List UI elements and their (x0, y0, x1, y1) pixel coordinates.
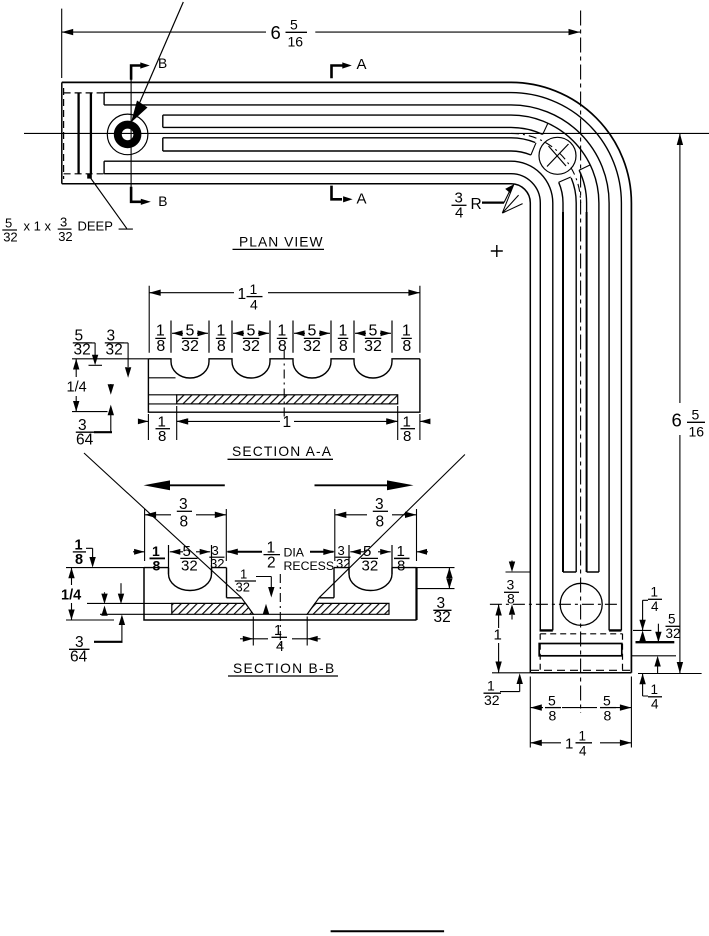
bottom end slot walls (solid) (539, 644, 622, 656)
bottom edge extension to the left (492, 672, 530, 674)
svg-text:32: 32 (58, 229, 72, 244)
section cut line B-B through hole (130, 65, 132, 202)
svg-text:1/4: 1/4 (61, 588, 81, 604)
left end hidden slot: dashed bottom (64, 173, 105, 175)
svg-text:32: 32 (303, 338, 321, 355)
svg-text:R: R (471, 196, 482, 213)
vertical leg centerline (dash-dot) (580, 11, 582, 714)
svg-text:5: 5 (5, 215, 12, 230)
groove 3 stub cap near corner hole (left) (531, 143, 536, 155)
svg-text:A: A (357, 191, 367, 208)
svg-text:1: 1 (579, 729, 587, 744)
svg-text:5: 5 (369, 323, 378, 340)
svg-text:32: 32 (364, 338, 382, 355)
hatched strip (177, 395, 398, 404)
svg-text:6: 6 (672, 410, 682, 431)
slot note leader line (90, 177, 133, 230)
svg-text:8: 8 (180, 514, 189, 531)
svg-text:8: 8 (549, 708, 557, 724)
vertical leg bottom: inner groove cap extension line (506, 571, 531, 573)
svg-text:x 1 x: x 1 x (24, 219, 52, 234)
svg-text:8: 8 (153, 558, 161, 574)
svg-text:5: 5 (290, 17, 298, 33)
part outline: left end edge (61, 82, 63, 183)
countersink slants (242, 598, 320, 615)
slot floor between slants (253, 613, 307, 615)
leader arrow from top into hole (140, 2, 184, 103)
svg-text:1: 1 (277, 323, 286, 340)
top dimension 6 5/16: left extension line (61, 9, 63, 78)
svg-text:B: B (158, 56, 167, 71)
right dimension 6 5/16: dimension line with arrows (679, 133, 681, 403)
countersunk hole at left end: black ring (118, 125, 138, 145)
svg-text:5: 5 (308, 323, 317, 340)
left extension of bottom edge (72, 411, 148, 414)
svg-text:8: 8 (403, 428, 411, 445)
svg-text:1: 1 (338, 323, 347, 340)
groove 2 stub cap near corner hole (left) (543, 123, 548, 134)
1 1/4 dimension line (530, 742, 631, 744)
svg-text:1: 1 (156, 323, 165, 340)
svg-text:8: 8 (604, 708, 612, 724)
second dim row ticks (169, 545, 393, 574)
svg-text:32: 32 (242, 338, 260, 355)
left end slot side walls (solid, thick) (79, 93, 91, 174)
svg-text:1: 1 (250, 281, 258, 297)
section A-A centerline (283, 351, 285, 419)
inner groove end caps at bottom of vertical leg (563, 571, 599, 573)
top chain dim row: tick lines (171, 321, 392, 353)
groove 2 top line (wraps corner, grazes hole) (163, 115, 599, 572)
groove 4 left end cap (103, 161, 105, 174)
svg-text:32: 32 (3, 230, 17, 245)
section A-A body top edge with 4 scallop grooves (148, 359, 420, 378)
svg-text:8: 8 (397, 558, 405, 575)
bottom 1/4: extension lines (253, 617, 307, 646)
svg-text:32: 32 (236, 580, 250, 595)
svg-text:1: 1 (238, 286, 247, 303)
5/32 right: level line (bold) and bracket (636, 641, 675, 643)
1/8 bottom left with outside arrows (138, 420, 148, 422)
svg-text:5: 5 (692, 407, 700, 423)
chain dim labels 5/32 (x4) with arrows (181, 323, 382, 356)
1/8 bottom right with outside arrows (388, 420, 398, 422)
chain dim labels 1/8 (x5) (156, 323, 411, 356)
svg-text:32: 32 (181, 338, 199, 355)
open arrow toward fillet (502, 184, 522, 213)
flag B top (131, 66, 142, 80)
svg-text:3: 3 (179, 496, 188, 513)
svg-text:8: 8 (156, 338, 165, 355)
svg-text:64: 64 (70, 649, 88, 666)
hole centerline horizontal at bottom of leg (dash-dot) (490, 603, 619, 605)
svg-text:8: 8 (278, 338, 287, 355)
strip level lines at left inside body (148, 395, 176, 404)
extension at outer groove cap level (633, 629, 651, 631)
bend mid centerline arc (dash-dot) (511, 133, 581, 203)
svg-text:5: 5 (668, 612, 676, 627)
svg-text:1: 1 (402, 323, 411, 340)
1 1/4 dimension line (149, 292, 420, 294)
row dim line piece (1/2 recess) (228, 551, 263, 553)
B-B right groove (349, 568, 392, 591)
svg-text:16: 16 (689, 424, 705, 440)
svg-text:1: 1 (651, 585, 659, 600)
viewing direction arrow right (315, 484, 392, 486)
recess walls (227, 568, 335, 598)
groove 1 left end cap (103, 93, 105, 105)
svg-text:8: 8 (217, 338, 226, 355)
bottom edge extension line to the right (638, 673, 702, 675)
svg-text:B: B (158, 194, 167, 209)
3/32 right: extension lines (417, 568, 455, 589)
row arrows at far left (133, 551, 145, 553)
groove bottom reference line (left) (148, 377, 175, 379)
recess floor segments (227, 597, 335, 599)
bottom end hidden slot: dashed bottom (full width) (531, 669, 631, 671)
1/4 top right: bracket (643, 600, 648, 630)
flag B bottom (131, 187, 141, 202)
groove 2 left end cap (162, 115, 164, 127)
small arrows to strip top line (104, 592, 106, 593)
small arrow to strip top (110, 384, 112, 387)
3/8 left: extension lines (145, 509, 227, 561)
svg-text:32: 32 (666, 626, 681, 641)
3/8 dimension (left of leg) (511, 561, 513, 566)
svg-text:1: 1 (274, 623, 282, 639)
bottom hole circle (560, 583, 602, 625)
svg-text:1: 1 (494, 627, 502, 644)
bottom 1/4 dim (240, 638, 253, 640)
3/32 right dim line (448, 568, 450, 589)
top dimension 6 5/16: dimension line (62, 31, 266, 33)
outer groove end caps at bottom of vertical leg (bold) (540, 629, 622, 631)
hatched strip right (307, 603, 389, 614)
svg-text:1: 1 (651, 682, 659, 697)
svg-text:4: 4 (250, 297, 258, 313)
svg-text:2: 2 (267, 555, 276, 572)
part outline: bottom edge + inner fillet + left edge of vertical leg (62, 184, 531, 673)
B-B centerline (279, 574, 281, 650)
part outline: top edge + outer corner arc + right edge of vertical leg (62, 82, 632, 672)
part outline: bottom end edge of vertical leg (530, 672, 631, 674)
groove 3 top line, interrupted by corner hole (163, 138, 576, 572)
corner hole cross (X) (547, 144, 569, 167)
1 bottom dimension (177, 420, 398, 422)
groove 4 top line (wraps corner) (104, 161, 553, 630)
groove 2 bottom line, interrupted by corner hole (163, 127, 587, 572)
1/32 dimension (bottom left of leg) (519, 678, 521, 692)
svg-text:PLAN VIEW: PLAN VIEW (239, 234, 324, 249)
viewing direction arrow left (166, 484, 225, 486)
svg-text:8: 8 (402, 338, 411, 355)
svg-text:4: 4 (455, 205, 463, 222)
horizontal centerline of plan view (24, 132, 709, 134)
svg-text:4: 4 (651, 599, 659, 614)
slot note leader dot (87, 174, 92, 179)
svg-text:1: 1 (565, 736, 573, 753)
left end hidden slot: dashed vertical (63, 88, 65, 179)
1/4 bottom right (657, 659, 659, 674)
groove 3 stub cap near corner hole (right) (559, 177, 571, 182)
bottom dims extension lines (148, 406, 420, 440)
1 dimension (left of leg) (498, 604, 500, 673)
svg-text:6: 6 (271, 22, 281, 43)
groove 4 bottom line (wraps corner) (104, 174, 540, 631)
thicker inner groove lines in vertical leg (563, 212, 587, 572)
svg-text:SECTION A-A: SECTION A-A (232, 444, 332, 459)
svg-text:SECTION B-B: SECTION B-B (233, 661, 335, 676)
section B-B body top edge segments (144, 567, 417, 569)
1/4 dimension (A-A left) (75, 359, 77, 412)
svg-text:4: 4 (276, 639, 284, 655)
svg-text:1: 1 (283, 414, 292, 431)
body sides and bottom (144, 568, 417, 620)
svg-text:1: 1 (216, 323, 225, 340)
5/8 / 5/8 dimension line (530, 707, 631, 709)
groove 2 stub cap near corner hole (right) (579, 165, 590, 170)
svg-text:A: A (357, 56, 367, 73)
svg-text:8: 8 (339, 338, 348, 355)
slot line extension to right (632, 655, 677, 657)
svg-text:32: 32 (484, 692, 500, 708)
3/8 right dimension line (335, 514, 417, 516)
section A-A body sides and bottom (148, 359, 420, 412)
3/64 left dimension (121, 625, 123, 642)
svg-text:32: 32 (362, 558, 379, 575)
svg-text:32: 32 (106, 342, 123, 359)
svg-text:8: 8 (507, 591, 515, 607)
3/8 right: extension lines (335, 509, 417, 561)
svg-text:3: 3 (60, 215, 67, 230)
groove 1 bottom line (wraps corner) (104, 105, 609, 631)
svg-text:32: 32 (336, 556, 350, 571)
svg-text:RECESS: RECESS (284, 559, 335, 573)
projection diagonal right (319, 455, 465, 598)
svg-text:DIA: DIA (284, 546, 305, 560)
groove 1 top line (wraps corner) (104, 93, 621, 631)
svg-text:16: 16 (288, 34, 304, 50)
svg-text:1/4: 1/4 (67, 380, 87, 396)
svg-text:5: 5 (186, 323, 195, 340)
flag A bottom (332, 186, 343, 200)
groove 3 bottom line, interrupted by corner hole (163, 151, 563, 572)
3/4 R leader (482, 202, 504, 204)
projection diagonal left (84, 453, 242, 598)
svg-text:4: 4 (651, 697, 659, 712)
svg-text:8: 8 (376, 514, 385, 531)
svg-text:32: 32 (181, 558, 198, 575)
svg-text:4: 4 (579, 744, 587, 759)
footer line (331, 930, 445, 932)
flag A top (332, 66, 343, 79)
svg-text:5: 5 (603, 693, 611, 709)
corner hole circle (539, 137, 576, 174)
svg-text:8: 8 (158, 428, 166, 445)
left end hidden slot: dashed top (64, 92, 105, 94)
1 1/4 extension lines (149, 286, 420, 353)
svg-text:DEEP: DEEP (78, 219, 113, 234)
svg-text:3: 3 (375, 496, 384, 513)
left side extension lines (66, 568, 172, 620)
B-B left groove (169, 568, 212, 591)
3/64 dimension (A-A left) (110, 415, 112, 432)
svg-text:8: 8 (75, 552, 83, 568)
svg-text:5: 5 (548, 693, 556, 709)
bottom end hidden slot: dashed verticals (540, 634, 622, 671)
groove 3 left end cap (162, 138, 164, 151)
svg-text:32: 32 (74, 342, 91, 359)
countersunk hole at left end: outer recess circle (107, 114, 148, 155)
left extension of top edge (72, 358, 148, 360)
1/4 left dimension (71, 568, 73, 620)
bottom dimensions of leg: extension lines (530, 677, 631, 748)
bottom end hidden slot: dashed top (540, 633, 622, 635)
+ center mark (491, 245, 503, 257)
hatched strip left (172, 603, 254, 614)
svg-text:32: 32 (434, 609, 451, 626)
svg-text:5: 5 (247, 323, 256, 340)
3/8 left dimension line (145, 514, 227, 516)
svg-text:64: 64 (76, 432, 94, 449)
